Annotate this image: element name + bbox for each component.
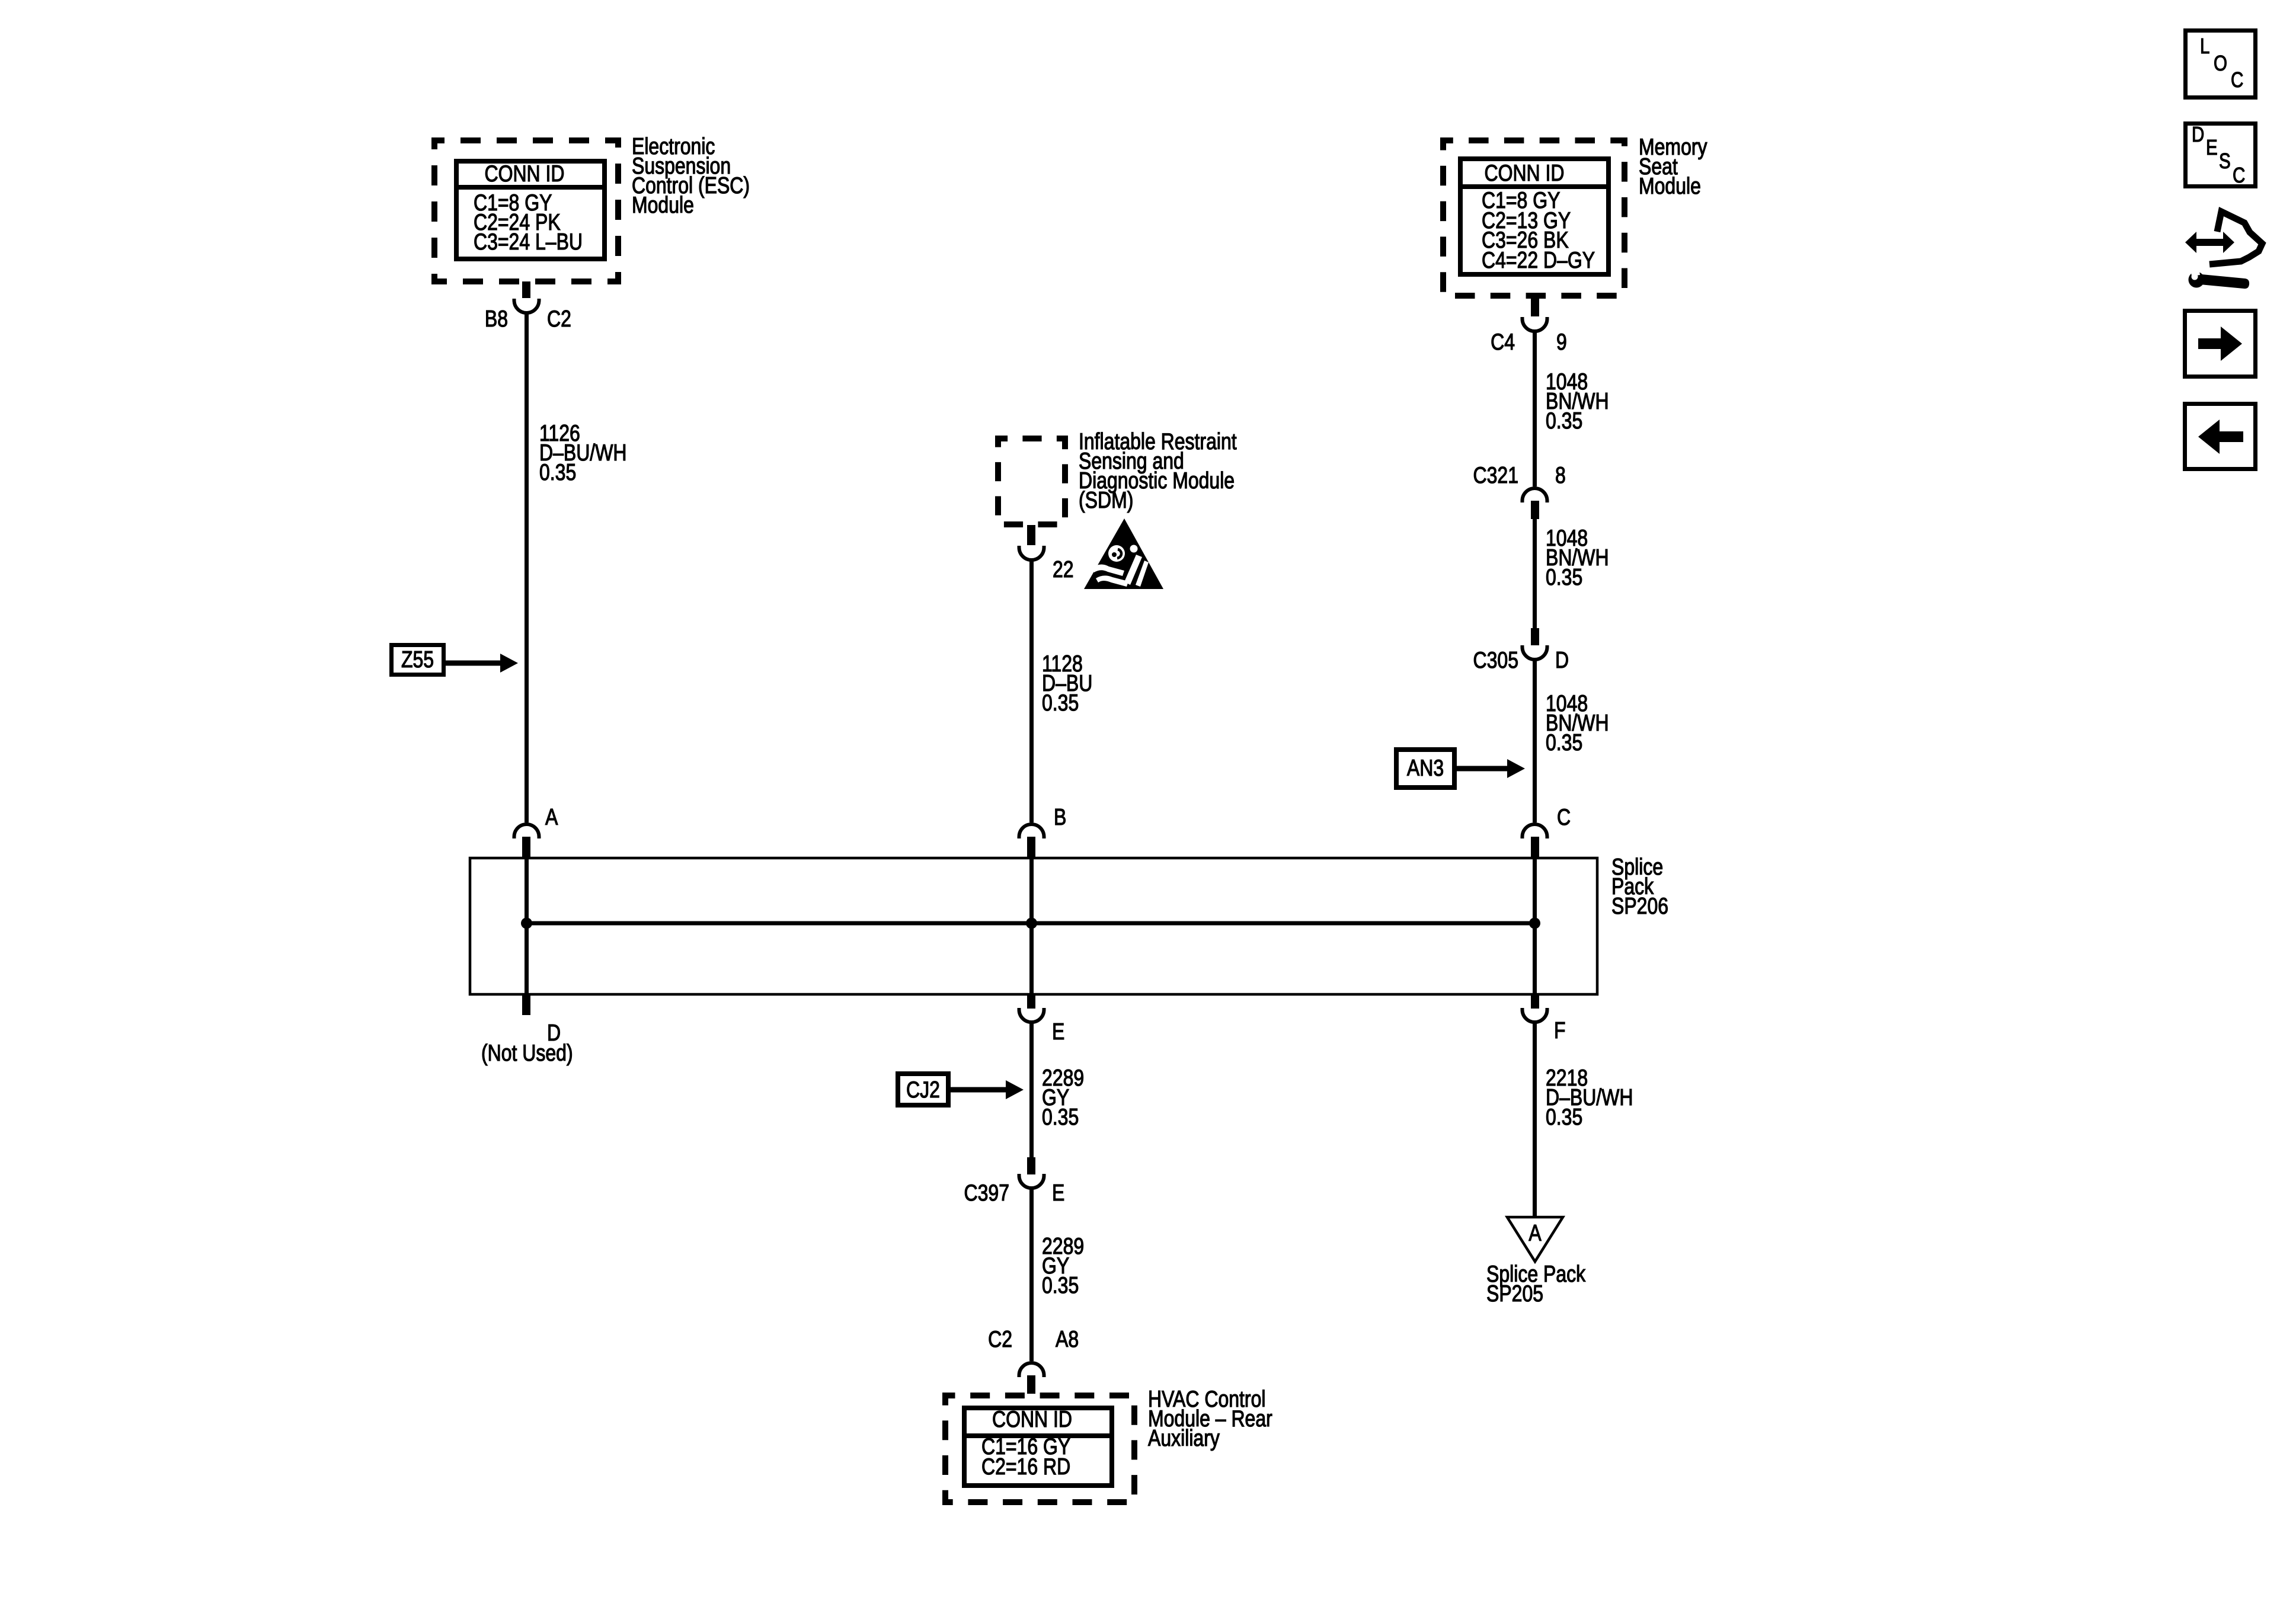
SDM module title xyxy=(1079,432,1237,510)
wire 2289 label 1 xyxy=(1042,1068,1084,1127)
wire 2289 label 2 xyxy=(1042,1237,1084,1295)
pin 22 label xyxy=(1053,560,1074,580)
wire SDM 22 to splice B xyxy=(1029,561,1034,822)
wire C305 to splice C xyxy=(1533,660,1537,822)
Splice Pack SP206 label xyxy=(1611,857,1668,916)
connector C2 label xyxy=(547,309,571,329)
terminal D label xyxy=(547,1023,561,1043)
cup splice F xyxy=(1523,1010,1547,1022)
Memory Seat CONN ID header xyxy=(1462,164,1587,183)
sidebar service icon: double arrow xyxy=(2185,232,2234,253)
stub SDM connector xyxy=(1027,525,1035,545)
HVAC module title xyxy=(1148,1390,1272,1448)
junction dot C xyxy=(1529,918,1540,929)
cup C305 xyxy=(1523,647,1547,660)
Memory Seat CONN ID box xyxy=(1460,159,1609,274)
ESC CONN ID divider xyxy=(454,185,607,190)
cup Memory Seat C4 connector xyxy=(1523,319,1547,331)
cup splice C xyxy=(1523,824,1547,837)
HVAC dashed box xyxy=(945,1395,1134,1502)
connector C305 label xyxy=(1470,651,1518,670)
ESC module title xyxy=(632,137,750,215)
cup splice A xyxy=(514,824,539,837)
connector C321 label xyxy=(1470,466,1518,485)
wire 2218 label xyxy=(1546,1068,1633,1127)
sidebar service icon: wrench xyxy=(2189,272,2205,288)
terminal E label xyxy=(1052,1022,1064,1042)
Memory Seat CONN ID divider xyxy=(1458,184,1611,189)
ESC connector table rows xyxy=(474,193,583,252)
stub C305 xyxy=(1531,628,1539,645)
cup SDM 22 connector xyxy=(1019,548,1044,560)
cup ESC C2 connector xyxy=(514,300,539,313)
SDM dashed box xyxy=(998,438,1065,524)
stub C321 xyxy=(1531,501,1539,519)
stub splice A xyxy=(522,837,530,857)
connector C2 label at HVAC xyxy=(964,1330,1012,1349)
cup C321 xyxy=(1523,488,1547,501)
CJ2 callout box xyxy=(898,1074,948,1105)
CJ2 arrow xyxy=(951,1087,1006,1093)
wire C321 to C305 xyxy=(1533,519,1537,628)
wire 1128 label xyxy=(1042,654,1092,713)
Splice Pack SP205 label xyxy=(1486,1265,1585,1304)
stub splice E xyxy=(1027,996,1035,1009)
connector C4 label xyxy=(1466,332,1515,352)
sidebar LOC box xyxy=(2186,31,2256,98)
cup splice B xyxy=(1019,824,1044,837)
wire E to C397 xyxy=(1029,1023,1034,1157)
sidebar service icon: panel outline xyxy=(2209,212,2262,264)
Memory Seat dashed box xyxy=(1443,140,1625,296)
wire ESC B8/C2 to splice A xyxy=(525,313,529,822)
ESC module dashed box xyxy=(434,140,618,281)
stub splice B xyxy=(1027,837,1035,857)
pin B8 label xyxy=(459,309,508,329)
sidebar right-arrow box xyxy=(2185,311,2256,377)
wire C-F inside splice pack xyxy=(1533,857,1537,996)
sidebar DESC box xyxy=(2186,124,2256,187)
AN3 arrow xyxy=(1457,766,1507,772)
SP205 triangle A label xyxy=(1511,1224,1559,1243)
wire Memory Seat 9 to C321 xyxy=(1533,332,1537,486)
AN3 callout box xyxy=(1396,750,1454,788)
wire B-E inside splice pack xyxy=(1029,857,1034,996)
pin E label at C397 xyxy=(1052,1183,1064,1203)
Z55 label xyxy=(395,650,441,670)
stub Memory Seat C4 connector xyxy=(1531,296,1539,316)
HVAC connector table rows xyxy=(981,1437,1070,1477)
Memory Seat connector table rows xyxy=(1482,191,1595,270)
wire A-D inside splice pack xyxy=(525,857,529,996)
stub splice F xyxy=(1531,996,1539,1009)
stub ESC C2 connector xyxy=(522,281,530,298)
wire 1126 label xyxy=(539,424,626,482)
pin A8 label xyxy=(1056,1330,1079,1349)
Z55 arrow xyxy=(446,661,500,666)
stub splice D (Not Used) xyxy=(522,996,530,1015)
AN3 label xyxy=(1400,758,1451,778)
pin D label xyxy=(1555,651,1569,670)
(Not Used) label xyxy=(481,1044,573,1063)
stub HVAC A8 connector xyxy=(1027,1375,1035,1394)
stub splice C xyxy=(1531,837,1539,857)
pin 9 label xyxy=(1556,332,1567,352)
wire 1048 label 3 xyxy=(1546,694,1609,753)
CJ2 label xyxy=(900,1080,945,1100)
stub C397 xyxy=(1027,1157,1035,1174)
terminal F label xyxy=(1554,1021,1566,1041)
SP205 splice pack triangle xyxy=(1507,1217,1563,1262)
Z55 callout box xyxy=(392,645,444,675)
airbag SIR warning triangle xyxy=(1084,518,1163,589)
sidebar left-arrow box xyxy=(2185,404,2256,469)
junction dot A xyxy=(521,918,532,929)
wire 1048 label 2 xyxy=(1546,529,1609,587)
connector C397 label xyxy=(961,1183,1009,1203)
Memory Seat module title xyxy=(1639,137,1707,196)
junction dot B xyxy=(1026,918,1037,929)
wire C397 to HVAC A8 xyxy=(1029,1189,1034,1361)
splice bus line xyxy=(525,921,1537,926)
HVAC CONN ID header xyxy=(970,1410,1095,1429)
cup C397 xyxy=(1019,1176,1044,1188)
cup splice E xyxy=(1019,1010,1044,1022)
pin 8 label xyxy=(1555,466,1566,485)
DESC icon letters xyxy=(2192,126,2204,143)
HVAC CONN ID divider xyxy=(962,1433,1114,1438)
HVAC CONN ID box xyxy=(964,1408,1112,1486)
LOC icon letters xyxy=(2200,37,2209,55)
ESC CONN ID header xyxy=(462,164,587,184)
terminal B label xyxy=(1054,808,1066,827)
wire 1048 label 1 xyxy=(1546,372,1609,431)
ESC CONN ID box xyxy=(456,161,605,259)
terminal A label xyxy=(545,808,558,827)
wire F to SP205 xyxy=(1533,1023,1537,1218)
splice pack SP206 box xyxy=(470,858,1597,994)
cup HVAC A8 connector xyxy=(1019,1363,1044,1375)
terminal C label xyxy=(1557,808,1571,827)
